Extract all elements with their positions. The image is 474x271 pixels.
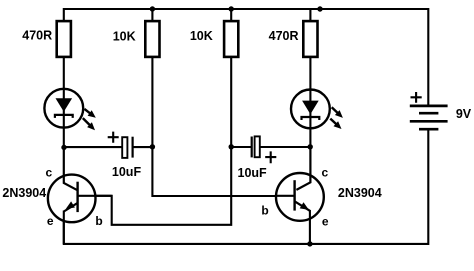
node junction C2/R3	[229, 144, 234, 149]
wire column 4: rail stub through R4 down to LED2	[309, 9, 311, 148]
node junction Q1 collector/C1	[61, 145, 66, 150]
wire column 3: rail through R3 down, left along cross-coupling, up to Q1 base	[95, 9, 231, 225]
transistor Q1 collector lead	[64, 147, 78, 190]
transistor Q2 body circle	[276, 173, 324, 221]
node junction rail/R2	[150, 6, 155, 11]
svg-text:470R: 470R	[22, 28, 52, 42]
transistor Q1 base lead	[78, 195, 112, 197]
battery plus sign	[411, 92, 422, 103]
svg-text:470R: 470R	[269, 29, 299, 43]
battery B1 short plate 2 (negative)	[419, 128, 438, 131]
capacitor C1 positive box plate	[122, 137, 127, 158]
transistor Q1 body circle	[48, 175, 96, 223]
svg-text:10uF: 10uF	[112, 165, 142, 179]
svg-text:c: c	[321, 165, 328, 179]
node junction rail near R4	[317, 6, 322, 11]
capacitor C2 plus sign	[265, 151, 276, 163]
node junction C1/R2	[150, 144, 155, 149]
svg-text:10K: 10K	[190, 29, 213, 43]
wire top positive rail with ends down to R1 and battery	[64, 9, 429, 106]
resistor R1 body	[57, 21, 71, 57]
svg-text:e: e	[322, 215, 329, 229]
capacitor C2 positive box plate	[255, 136, 260, 157]
wire C2 right lead to Q2 collector node	[260, 146, 311, 148]
LED D2 (right)	[291, 90, 330, 129]
node junction rail/R3	[229, 6, 234, 11]
node junction Q2 emitter/ground rail	[307, 241, 312, 246]
svg-text:2N3904: 2N3904	[338, 186, 382, 200]
LED D2 light arrow 1	[332, 107, 339, 114]
resistor R4 body	[303, 21, 317, 57]
svg-text:9V: 9V	[456, 107, 472, 121]
LED D1 light arrow 1	[84, 109, 91, 115]
LED D1 (left)	[44, 89, 83, 128]
wire C2 left lead from column 3	[231, 146, 251, 148]
transistor Q1 base bar	[76, 182, 78, 212]
capacitor C1 plus sign	[108, 132, 119, 143]
transistor Q2 base lead	[276, 195, 295, 197]
LED D2 light arrow 2	[330, 119, 337, 126]
capacitor C1 negative plate	[132, 137, 134, 158]
resistor R3 body	[224, 21, 238, 57]
wire C1 left lead from collector node	[64, 146, 123, 148]
svg-text:2N3904: 2N3904	[2, 186, 46, 200]
transistor Q2 base bar	[293, 180, 295, 210]
node junction Q2 collector/C2	[308, 144, 313, 149]
svg-text:10K: 10K	[113, 29, 136, 43]
wire left column R1 to C1/Q1 collector junction	[63, 56, 65, 148]
resistor R2 body	[145, 21, 159, 57]
svg-text:e: e	[47, 214, 54, 228]
battery B1 positive long plate 1	[410, 105, 448, 108]
wire C1 right lead to column 2	[133, 146, 152, 148]
transistor Q2 collector lead	[296, 147, 310, 190]
wire bottom ground rail from Q1 emitter to battery negative	[64, 129, 429, 244]
wire column 2: rail through R2 down to corner, right to Q2 base	[152, 9, 294, 196]
battery B1 long plate 2	[410, 120, 448, 123]
svg-text:c: c	[45, 165, 52, 179]
svg-text:b: b	[95, 214, 102, 228]
transistor Q2 emitter lead with arrow	[295, 201, 310, 211]
transistor Q1 emitter lead with arrow	[64, 203, 78, 212]
svg-text:10uF: 10uF	[238, 166, 268, 180]
capacitor C2 negative plate	[251, 137, 253, 158]
svg-text:b: b	[261, 204, 268, 218]
battery B1 short plate 1	[419, 112, 438, 115]
LED D1 light arrow 2	[83, 118, 91, 126]
